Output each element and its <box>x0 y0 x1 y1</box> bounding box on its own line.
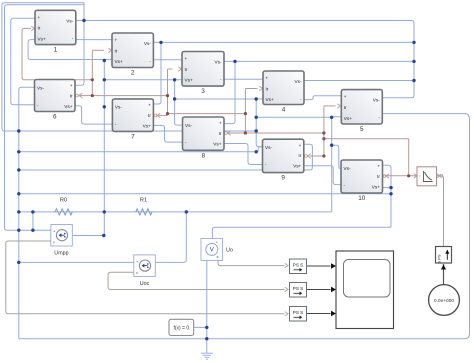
svg-text:Vs-: Vs- <box>344 166 351 171</box>
svg-text:4: 4 <box>282 107 286 114</box>
svg-text:f(x) = 0: f(x) = 0 <box>173 326 189 332</box>
svg-text:8: 8 <box>201 152 205 159</box>
svg-text:3: 3 <box>201 88 205 95</box>
svg-text:Vs-: Vs- <box>294 79 301 84</box>
svg-text:PS S: PS S <box>293 263 303 268</box>
svg-text:Vs-: Vs- <box>115 105 122 110</box>
svg-text:+: + <box>377 164 380 169</box>
svg-text:Ir: Ir <box>70 93 73 98</box>
svg-text:PS S: PS S <box>293 286 303 291</box>
svg-text:Vs+: Vs+ <box>143 123 151 128</box>
svg-text:V: V <box>210 248 214 254</box>
svg-text:+: + <box>38 15 41 20</box>
svg-text:Vs-: Vs- <box>373 98 380 103</box>
svg-text:Vs+: Vs+ <box>293 164 301 169</box>
svg-text:7: 7 <box>131 133 135 140</box>
svg-text:Ir: Ir <box>344 105 347 110</box>
svg-text:+: + <box>115 38 118 43</box>
svg-text:2: 2 <box>131 70 135 77</box>
svg-text:Vs+: Vs+ <box>372 184 380 189</box>
svg-text:Ir: Ir <box>377 174 380 179</box>
svg-text:Vs+: Vs+ <box>266 97 274 102</box>
svg-text:6: 6 <box>53 114 57 121</box>
svg-text:Ir: Ir <box>148 113 151 118</box>
svg-text:R1: R1 <box>140 198 147 204</box>
svg-text:+: + <box>185 56 188 61</box>
svg-text:0.0e+000: 0.0e+000 <box>434 298 454 304</box>
svg-text:Ir: Ir <box>115 48 118 53</box>
svg-text:9: 9 <box>281 175 285 182</box>
svg-text:+: + <box>344 94 347 99</box>
svg-text:Vs-: Vs- <box>185 123 192 128</box>
svg-text:10: 10 <box>358 195 366 202</box>
svg-text:S PS: S PS <box>437 254 442 263</box>
svg-text:v: v <box>136 271 138 275</box>
svg-text:Vs+: Vs+ <box>38 37 46 42</box>
svg-text:Umpp: Umpp <box>54 251 68 257</box>
svg-text:Vs-: Vs- <box>37 85 44 90</box>
svg-text:Vs-: Vs- <box>144 41 151 46</box>
svg-text:5: 5 <box>360 126 364 133</box>
svg-text:Vs-: Vs- <box>265 145 272 150</box>
svg-text:Vs-: Vs- <box>66 18 73 23</box>
svg-text:Vs+: Vs+ <box>64 104 72 109</box>
svg-text:Ir: Ir <box>266 86 269 91</box>
svg-text:+: + <box>299 143 302 148</box>
svg-text:Vs+: Vs+ <box>185 78 193 83</box>
svg-text:Ir: Ir <box>298 153 301 158</box>
svg-text:Ir: Ir <box>38 26 41 31</box>
svg-text:Uoc: Uoc <box>140 281 150 287</box>
svg-text:>: > <box>216 255 219 260</box>
svg-text:R0: R0 <box>60 198 67 204</box>
svg-text:+: + <box>219 121 222 126</box>
svg-text:+: + <box>70 83 73 88</box>
svg-text:+: + <box>148 103 151 108</box>
svg-text:Ir: Ir <box>185 67 188 72</box>
svg-text:PS S: PS S <box>293 310 303 315</box>
svg-text:v: v <box>53 241 55 245</box>
svg-text:Vs+: Vs+ <box>344 116 352 121</box>
svg-text:Ir: Ir <box>219 131 222 136</box>
svg-text:Vs-: Vs- <box>214 60 221 65</box>
svg-text:Uo: Uo <box>226 247 233 253</box>
svg-text:Vs+: Vs+ <box>115 59 123 64</box>
svg-text:+: + <box>266 76 269 81</box>
svg-text:Vs+: Vs+ <box>213 141 221 146</box>
svg-text:1: 1 <box>54 47 58 54</box>
